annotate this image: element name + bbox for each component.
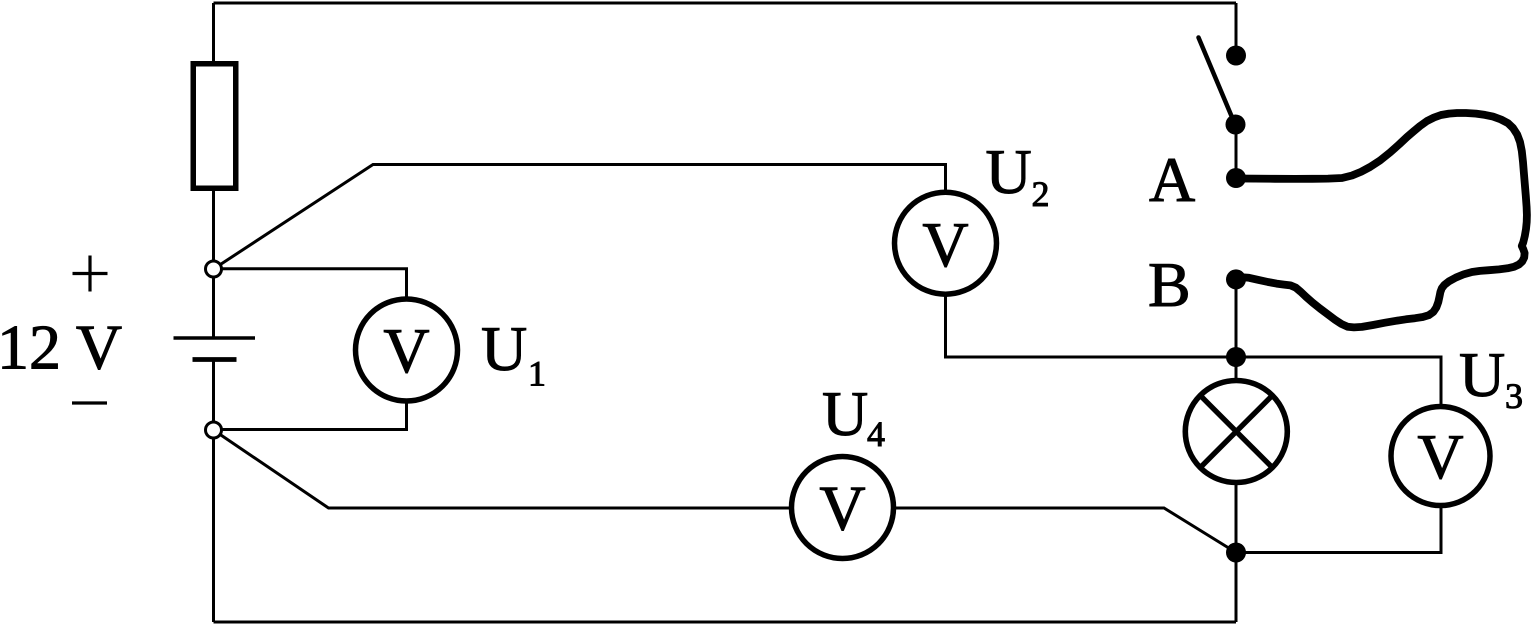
svg-text:U: U <box>986 136 1032 207</box>
freehand flexible wire from terminal A around to terminal B <box>1236 113 1527 327</box>
wire node N to voltmeter U4 (diagonal and long horizontal) <box>214 430 1237 553</box>
battery negative plate <box>193 357 237 362</box>
wire node P to voltmeter U2 (diagonal and long horizontal) <box>214 165 946 270</box>
wire top border corner down to switch contact <box>1235 3 1238 56</box>
wire voltmeter U1 bottom to node N <box>214 400 407 430</box>
voltmeter U4 body <box>792 457 894 559</box>
switch lever (open) <box>1199 38 1235 123</box>
wire terminal B to junction J1 <box>1235 279 1238 357</box>
terminal A dot <box>1226 168 1246 188</box>
wire lamp bottom to junction J2 <box>1235 483 1238 553</box>
terminal B dot <box>1226 269 1246 289</box>
junction J2 dot <box>1226 543 1246 563</box>
voltmeter U2 body <box>895 192 997 294</box>
wire switch pivot to terminal A <box>1235 125 1238 179</box>
resistor R <box>193 64 236 189</box>
wire junction J1 to lamp top <box>1235 357 1238 381</box>
voltmeter U3 body <box>1391 407 1490 506</box>
svg-text:1: 1 <box>528 354 546 394</box>
battery positive plate <box>174 336 256 339</box>
wire node P to battery positive plate <box>212 269 215 338</box>
svg-text:12 V: 12 V <box>0 312 122 383</box>
svg-text:V: V <box>383 315 429 386</box>
voltmeter U1 body <box>356 299 458 401</box>
wire bottom border <box>214 621 1237 624</box>
svg-text:3: 3 <box>1505 376 1523 416</box>
node P open circle (battery + terminal) <box>206 261 222 277</box>
svg-text:V: V <box>819 473 865 544</box>
junction J1 dot <box>1226 347 1246 367</box>
wire node P to voltmeter U1 top <box>214 269 407 300</box>
wire top border <box>214 2 1237 5</box>
wire junction J2 to voltmeter U3 bottom <box>1236 505 1441 553</box>
lamp cross stroke 2 <box>1200 395 1272 467</box>
svg-text:4: 4 <box>867 414 885 454</box>
lamp body <box>1185 381 1287 483</box>
svg-text:2: 2 <box>1032 174 1050 214</box>
switch top contact dot <box>1226 46 1246 66</box>
wire battery negative plate to node N <box>212 360 215 431</box>
lamp cross stroke 1 <box>1200 395 1272 467</box>
svg-text:V: V <box>1417 421 1463 492</box>
svg-text:U: U <box>822 378 868 449</box>
svg-text:U: U <box>1459 339 1505 410</box>
wire node N to bottom border <box>212 430 215 622</box>
svg-text:A: A <box>1149 144 1195 215</box>
wire left branch top (top border to resistor) <box>212 3 215 63</box>
wire resistor to node P <box>212 191 215 269</box>
battery plus sign <box>73 256 108 292</box>
svg-text:U: U <box>481 313 527 384</box>
switch pivot dot <box>1226 115 1246 135</box>
wire junction J2 to bottom border <box>1235 553 1238 623</box>
battery minus sign <box>72 401 107 404</box>
svg-text:V: V <box>922 209 968 280</box>
svg-text:B: B <box>1148 249 1191 320</box>
node N open circle (battery - terminal) <box>206 422 222 438</box>
wire voltmeter U2 bottom to junction J1 and on to voltmeter U3 top <box>946 294 1442 407</box>
